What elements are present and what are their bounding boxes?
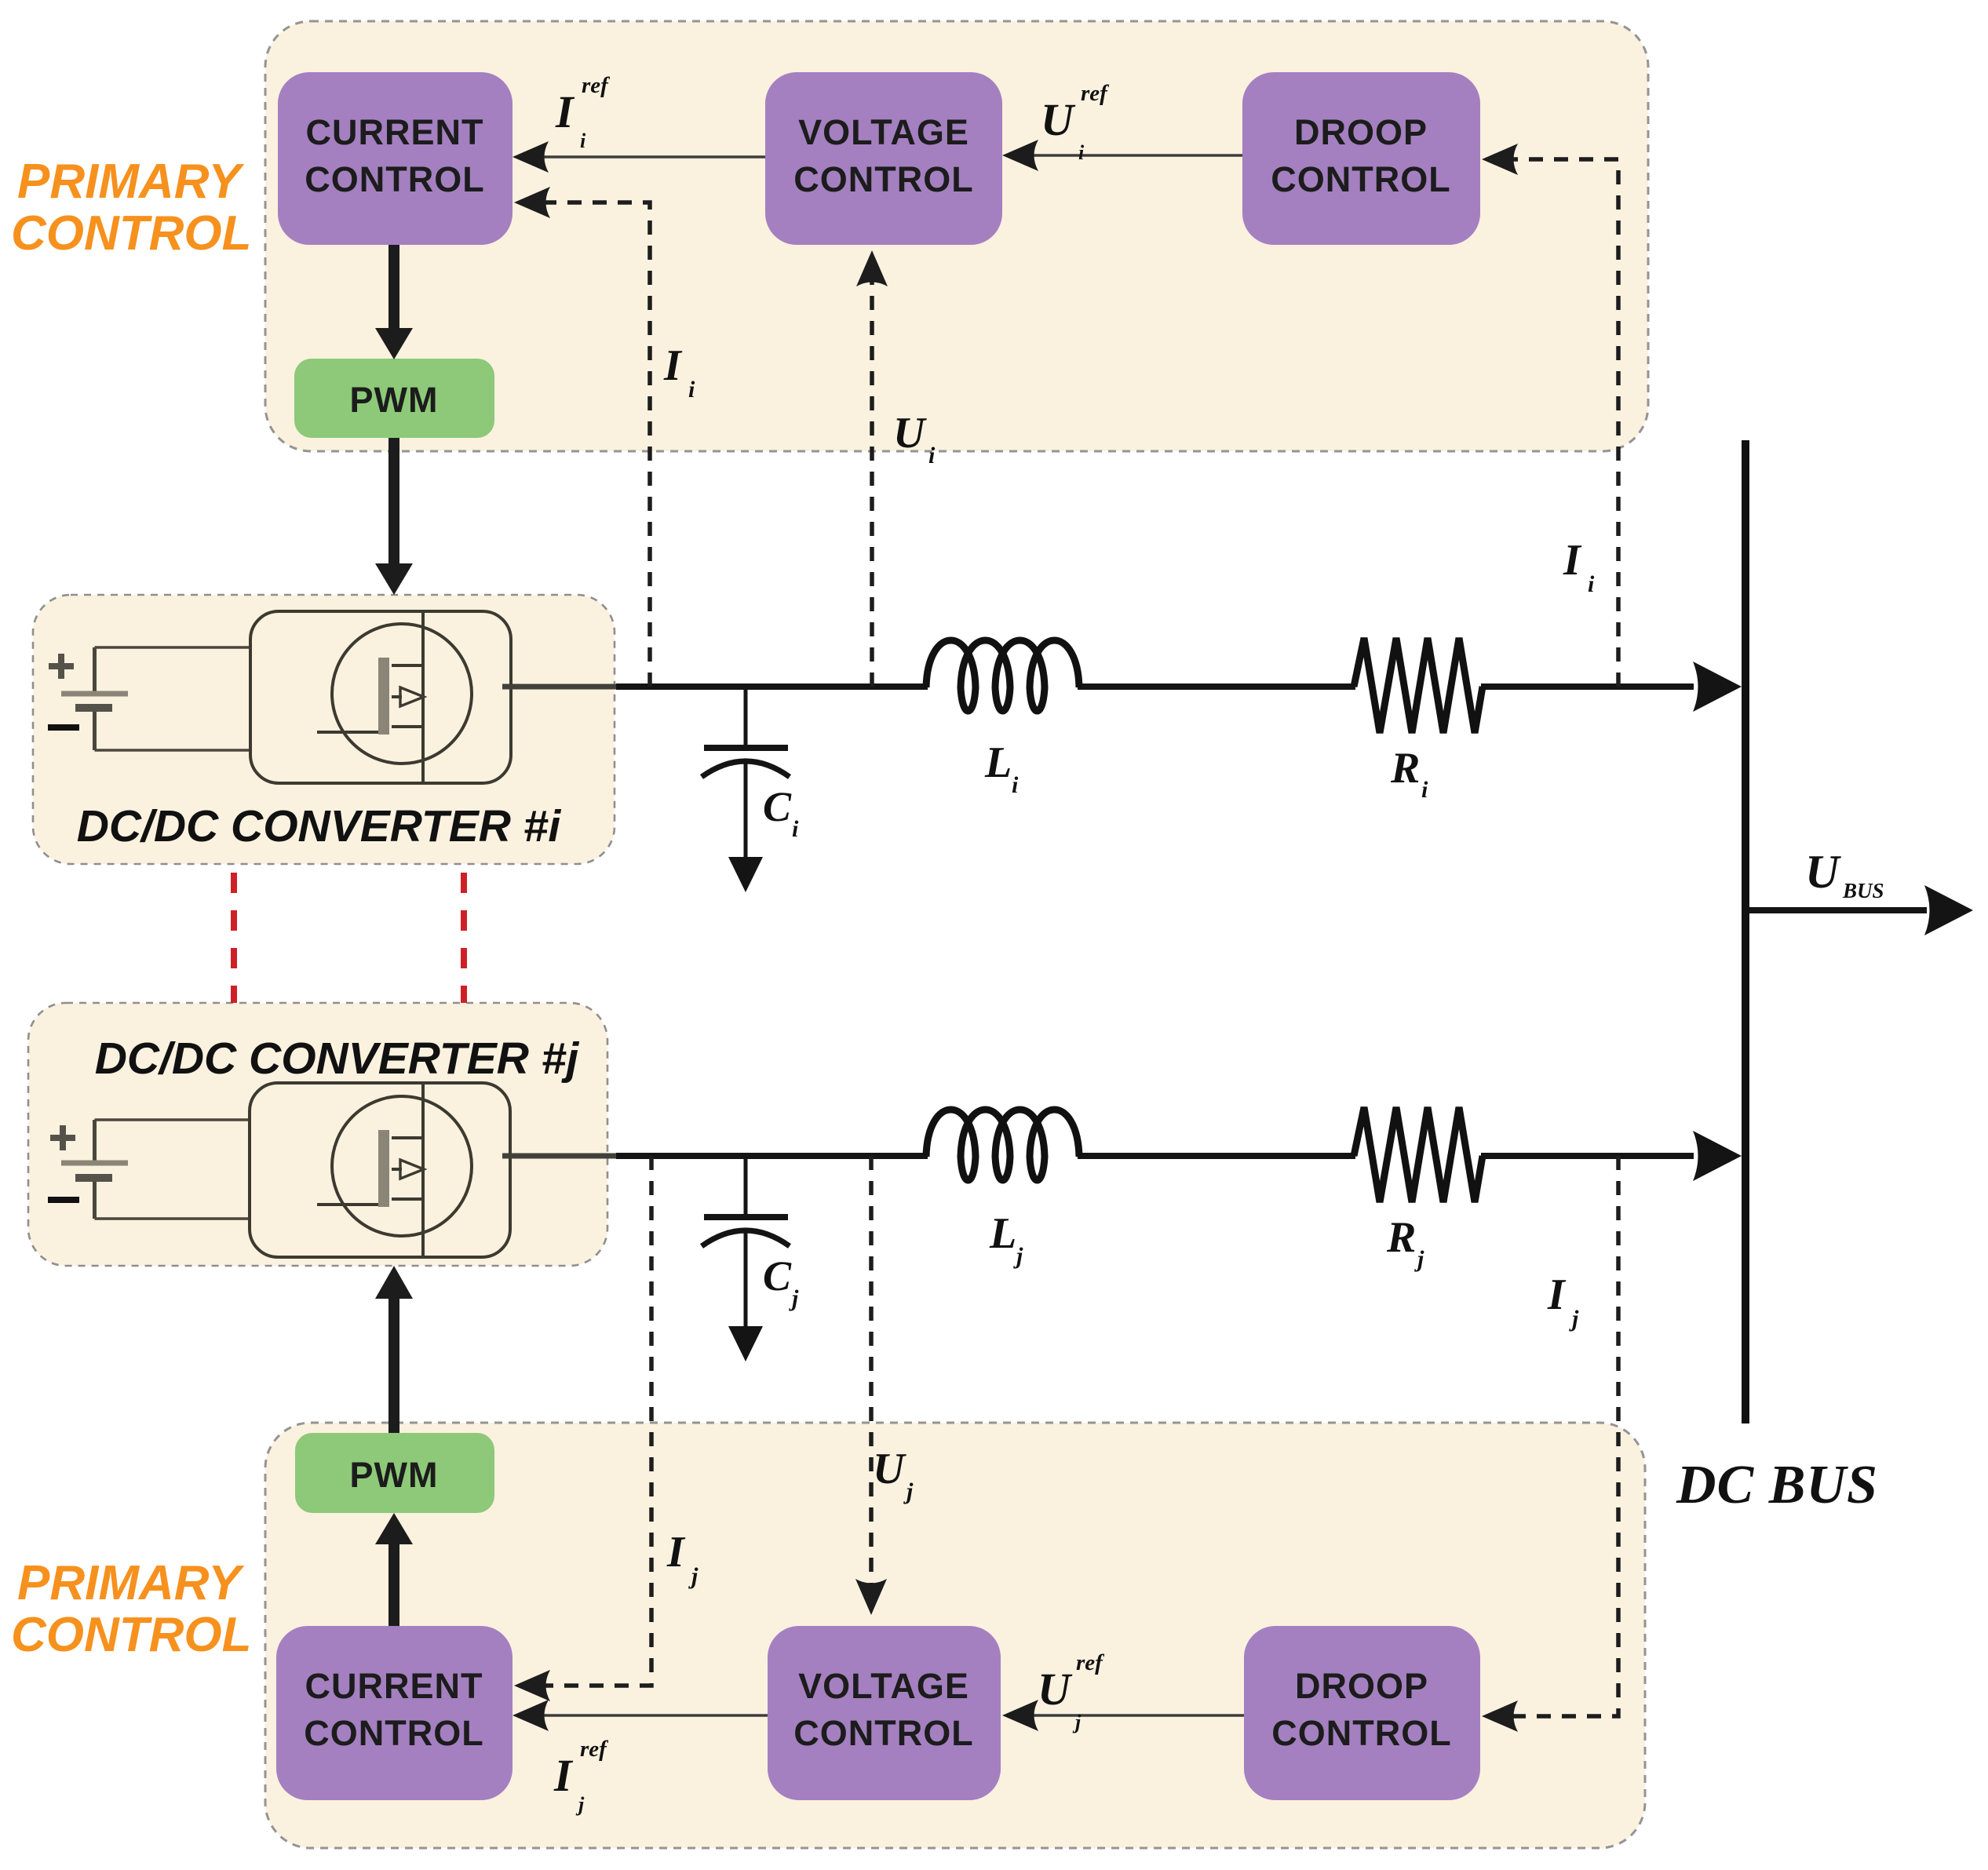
feedback Ij to droop control j (dashed) <box>1508 1156 1618 1716</box>
wire: converter j output (gray stub) <box>502 1154 618 1159</box>
svg-text:CONTROL: CONTROL <box>1271 159 1450 199</box>
svg-text:i: i <box>1588 571 1595 597</box>
svg-text:U: U <box>1038 1664 1073 1715</box>
svg-text:CONTROL: CONTROL <box>11 206 252 261</box>
DC bus bar <box>1742 440 1749 1423</box>
svg-text:CONTROL: CONTROL <box>1271 1713 1451 1753</box>
wire: resistor i to DC bus with arrowhead <box>1481 683 1694 690</box>
svg-text:C: C <box>763 1252 792 1300</box>
svg-text:DC/DC CONVERTER #i: DC/DC CONVERTER #i <box>77 801 562 851</box>
wire: inductor i to resistor i <box>1078 683 1355 690</box>
svg-text:i: i <box>792 816 799 842</box>
wire: thick arrow current control i to PWM i <box>375 245 413 359</box>
svg-text:U: U <box>1805 846 1841 898</box>
svg-text:DROOP: DROOP <box>1295 1666 1428 1706</box>
svg-text:PWM: PWM <box>350 1455 439 1495</box>
primary control container (top) <box>265 21 1648 451</box>
parallel link red dashed (right) <box>461 873 467 1003</box>
svg-text:I: I <box>663 341 683 390</box>
svg-text:U: U <box>873 1445 906 1493</box>
svg-text:BUS: BUS <box>1842 879 1884 902</box>
svg-text:PWM: PWM <box>350 380 439 420</box>
svg-text:ref: ref <box>580 1737 609 1762</box>
wire: droop j to voltage j (Uref) <box>1020 1714 1244 1717</box>
svg-text:CONTROL: CONTROL <box>11 1608 252 1662</box>
svg-text:i: i <box>1421 777 1428 803</box>
svg-text:DC BUS: DC BUS <box>1676 1455 1878 1515</box>
transistor (MOSFET) i <box>317 611 472 783</box>
wire: resistor j to DC bus with arrowhead <box>1481 1153 1694 1159</box>
svg-text:I: I <box>555 86 575 137</box>
switch box converter j <box>250 1083 510 1257</box>
transistor (MOSFET) j <box>317 1083 472 1257</box>
wire: voltage j to current j (Iref) <box>531 1714 768 1717</box>
svg-text:i: i <box>580 129 586 152</box>
feedback Ij: wire node to current control j (dashed) <box>540 1156 651 1686</box>
svg-text:CONTROL: CONTROL <box>793 159 973 199</box>
svg-text:I: I <box>553 1750 574 1801</box>
svg-text:U: U <box>1041 94 1076 145</box>
svg-text:CONTROL: CONTROL <box>305 159 484 199</box>
svg-text:ref: ref <box>1081 81 1110 106</box>
svg-text:ref: ref <box>582 73 611 98</box>
wire: thick arrow current control j up to PWM j <box>375 1513 413 1626</box>
svg-text:I: I <box>1547 1270 1567 1319</box>
battery source i <box>61 647 250 750</box>
DC/DC converter #j enclosure <box>28 1003 607 1266</box>
svg-text:I: I <box>666 1528 686 1577</box>
block PWM j <box>295 1433 494 1513</box>
wire: converter i output (gray stub) <box>502 684 618 690</box>
wire: main line i to inductor <box>616 683 928 690</box>
inductor Li <box>926 640 1079 711</box>
svg-text:DROOP: DROOP <box>1294 112 1428 152</box>
svg-text:L: L <box>984 738 1012 787</box>
inductor Lj <box>926 1110 1079 1180</box>
resistor Ri <box>1354 638 1483 733</box>
svg-text:U: U <box>893 409 927 457</box>
svg-text:I: I <box>1563 536 1582 585</box>
block PWM i <box>294 359 494 438</box>
primary control container (bottom) <box>265 1423 1645 1848</box>
feedback Ui: wire node to voltage control i (dashed) <box>870 276 874 687</box>
switch box converter i <box>250 611 511 783</box>
wire: thick arrow PWM i to converter i <box>375 438 413 595</box>
svg-text:PRIMARY: PRIMARY <box>17 1556 245 1610</box>
block VOLTAGE CONTROL j <box>768 1626 1001 1800</box>
svg-text:VOLTAGE: VOLTAGE <box>798 112 969 152</box>
wire: thick arrow PWM j up to converter j <box>375 1266 413 1433</box>
svg-text:CURRENT: CURRENT <box>305 1666 483 1706</box>
svg-text:CONTROL: CONTROL <box>793 1713 973 1753</box>
capacitor Ci <box>702 690 790 860</box>
svg-text:C: C <box>763 783 792 830</box>
svg-text:R: R <box>1386 1213 1416 1262</box>
svg-text:R: R <box>1390 744 1420 793</box>
feedback Ii: wire node to current control i (dashed) <box>540 202 650 687</box>
parallel link red dashed (left) <box>231 873 237 1003</box>
block CURRENT CONTROL j <box>276 1626 513 1800</box>
feedback Ii to droop control i (dashed) <box>1508 159 1618 687</box>
wire: droop i to voltage i (Uref) <box>1020 154 1242 157</box>
block VOLTAGE CONTROL i <box>765 72 1002 245</box>
block DROOP CONTROL j <box>1244 1626 1480 1800</box>
svg-text:L: L <box>989 1209 1016 1258</box>
svg-text:VOLTAGE: VOLTAGE <box>798 1666 969 1706</box>
DC/DC converter #i enclosure <box>33 595 615 864</box>
svg-text:DC/DC CONVERTER #j: DC/DC CONVERTER #j <box>95 1033 580 1084</box>
wire: voltage i to current i (Iref) <box>531 155 765 159</box>
node UBUS output arrow <box>1749 907 1927 913</box>
svg-text:PRIMARY: PRIMARY <box>17 155 245 209</box>
feedback Uj: wire node to voltage control j (dashed) <box>869 1156 874 1587</box>
svg-text:i: i <box>928 443 936 468</box>
block CURRENT CONTROL i <box>278 72 513 245</box>
svg-text:ref: ref <box>1076 1650 1105 1675</box>
svg-text:i: i <box>1012 772 1019 798</box>
svg-text:i: i <box>688 377 695 403</box>
battery source j <box>61 1120 250 1219</box>
capacitor Cj <box>702 1159 790 1328</box>
svg-text:CONTROL: CONTROL <box>304 1713 483 1753</box>
resistor Rj <box>1354 1107 1483 1202</box>
block DROOP CONTROL i <box>1242 72 1480 245</box>
svg-text:i: i <box>1078 141 1085 164</box>
wire: main line j to inductor <box>616 1153 928 1159</box>
wire: inductor j to resistor j <box>1078 1153 1355 1159</box>
svg-text:CURRENT: CURRENT <box>306 112 484 152</box>
